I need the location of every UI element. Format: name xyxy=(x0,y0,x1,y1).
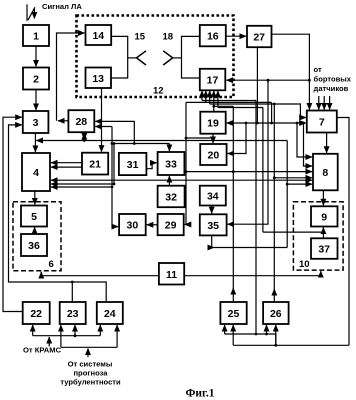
svg-text:9: 9 xyxy=(321,211,327,223)
svg-text:15: 15 xyxy=(135,32,146,43)
svg-text:32: 32 xyxy=(165,192,177,204)
svg-text:25: 25 xyxy=(228,308,240,320)
svg-text:6: 6 xyxy=(49,259,54,270)
svg-text:30: 30 xyxy=(127,220,139,232)
svg-text:прогноза: прогноза xyxy=(73,369,108,378)
svg-text:2: 2 xyxy=(33,74,39,86)
svg-text:24: 24 xyxy=(104,308,116,320)
svg-text:36: 36 xyxy=(28,240,40,252)
svg-text:35: 35 xyxy=(207,220,219,232)
svg-text:29: 29 xyxy=(165,220,177,232)
svg-text:4: 4 xyxy=(33,167,39,179)
svg-text:1: 1 xyxy=(33,31,39,43)
svg-text:28: 28 xyxy=(75,116,87,128)
svg-text:5: 5 xyxy=(31,211,37,223)
svg-text:34: 34 xyxy=(207,191,219,203)
svg-text:От системы: От системы xyxy=(68,360,113,369)
svg-text:16: 16 xyxy=(207,31,219,43)
svg-text:10: 10 xyxy=(299,259,310,270)
svg-text:8: 8 xyxy=(322,167,328,179)
svg-text:12: 12 xyxy=(153,86,164,97)
svg-text:22: 22 xyxy=(30,308,42,320)
svg-text:21: 21 xyxy=(89,159,101,171)
svg-text:18: 18 xyxy=(163,32,174,43)
svg-text:17: 17 xyxy=(207,75,219,87)
svg-text:турбулентности: турбулентности xyxy=(60,378,121,387)
svg-text:От КРАМС: От КРАМС xyxy=(23,346,62,355)
svg-text:37: 37 xyxy=(318,244,330,256)
svg-text:19: 19 xyxy=(207,118,219,130)
svg-text:бортовых: бортовых xyxy=(314,75,352,84)
svg-text:Фиг.1: Фиг.1 xyxy=(185,388,214,400)
svg-text:14: 14 xyxy=(92,30,104,42)
svg-text:Сигнал ЛА: Сигнал ЛА xyxy=(42,2,82,11)
svg-text:20: 20 xyxy=(208,150,220,162)
svg-text:26: 26 xyxy=(270,308,282,320)
svg-text:3: 3 xyxy=(33,117,39,129)
svg-text:7: 7 xyxy=(319,117,325,129)
svg-text:27: 27 xyxy=(253,32,265,44)
svg-text:23: 23 xyxy=(67,308,79,320)
svg-text:датчиков: датчиков xyxy=(314,84,349,93)
svg-text:11: 11 xyxy=(166,269,177,281)
svg-text:31: 31 xyxy=(127,159,139,171)
svg-text:от: от xyxy=(314,65,322,74)
svg-text:33: 33 xyxy=(165,159,177,171)
svg-text:13: 13 xyxy=(92,73,104,85)
